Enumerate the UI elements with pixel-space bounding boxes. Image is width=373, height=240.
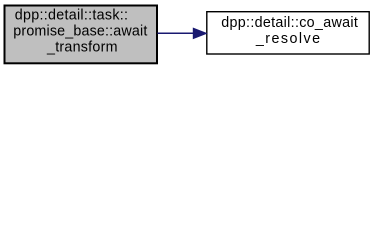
svg-text:dpp::detail::co_await: dpp::detail::co_await xyxy=(221,15,358,31)
svg-text:dpp::detail::task::: dpp::detail::task:: xyxy=(15,7,128,23)
svg-text:_resolve: _resolve xyxy=(255,31,320,47)
svg-text:_transform: _transform xyxy=(46,39,118,55)
svg-text:promise_base::await: promise_base::await xyxy=(13,23,147,39)
